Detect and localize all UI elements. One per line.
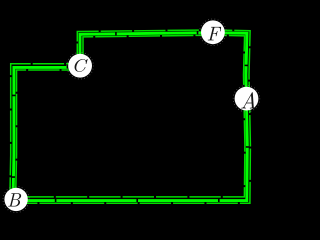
wire outer thin green rail of loop B-C-F-A: [10, 30, 251, 203]
node F: [200, 19, 227, 46]
wire inner thin green rail of loop B-C-F-A: [16, 35, 245, 197]
node C: [67, 52, 94, 79]
node A: [233, 85, 260, 112]
node B: [3, 186, 29, 212]
wire middle thick green rail of loop B-C-F-A: [13, 33, 247, 201]
